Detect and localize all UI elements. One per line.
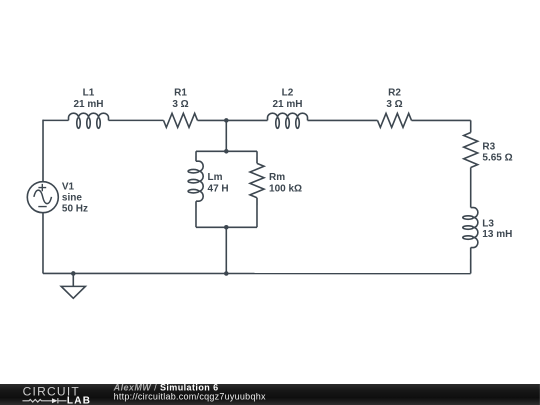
svg-text:L3: L3 — [482, 218, 494, 229]
svg-text:Rm: Rm — [269, 172, 285, 183]
svg-text:L2: L2 — [282, 88, 294, 99]
svg-text:5.65 Ω: 5.65 Ω — [482, 153, 512, 164]
svg-text:13 mH: 13 mH — [482, 229, 512, 240]
svg-text:R2: R2 — [388, 88, 401, 99]
svg-text:L1: L1 — [83, 88, 95, 99]
svg-text:http://circuitlab.com/cqgz7uyu: http://circuitlab.com/cqgz7uyuubqhx — [114, 392, 266, 402]
svg-text:Lm: Lm — [208, 172, 223, 183]
svg-text:50 Hz: 50 Hz — [62, 204, 88, 215]
svg-text:sine: sine — [62, 193, 82, 204]
svg-text:V1: V1 — [62, 181, 75, 192]
svg-text:3 Ω: 3 Ω — [386, 99, 402, 110]
svg-text:R3: R3 — [482, 142, 495, 153]
svg-text:3 Ω: 3 Ω — [172, 99, 188, 110]
svg-text:47 H: 47 H — [208, 183, 229, 194]
svg-text:100 kΩ: 100 kΩ — [269, 183, 302, 194]
svg-text:21 mH: 21 mH — [273, 99, 303, 110]
svg-text:LAB: LAB — [67, 395, 91, 405]
svg-text:21 mH: 21 mH — [74, 99, 104, 110]
svg-text:R1: R1 — [174, 88, 187, 99]
